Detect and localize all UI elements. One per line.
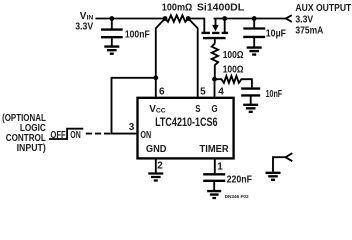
node gate/G junction [212,77,217,82]
svg-text:OFF: OFF [50,130,65,141]
connector GND probe ground [266,173,281,180]
svg-text:1: 1 [217,161,223,172]
svg-text:375mA: 375mA [295,25,323,36]
svg-text:INPUT): INPUT) [17,143,46,154]
capacitor C3 10nF [241,89,260,104]
svg-text:100mΩ: 100mΩ [162,3,193,14]
svg-text:100nF: 100nF [125,29,150,40]
transistor Q1 source stub [224,19,226,33]
wire source to AUX output [214,18,286,20]
capacitor C2 10uF [243,19,265,47]
wire ON feed [112,78,156,134]
capacitor C1 100nF [101,19,123,46]
resistor R2 100 horizontal [215,76,252,88]
svg-text:100Ω: 100Ω [223,64,244,75]
node C2 junction [252,16,257,21]
transistor Q1 gate lead [214,39,216,43]
node VIN/C1 junction [109,16,114,21]
AUX connector arrowhead [286,15,292,22]
transistor Q1 body arrow [212,19,219,32]
svg-text:ON: ON [140,130,151,141]
svg-text:TIMER: TIMER [200,144,230,155]
connector GND probe arrowhead [286,153,293,161]
svg-text:10µF: 10µF [266,28,286,39]
svg-text:2: 2 [157,161,163,172]
transistor Q1 channel segments [202,32,229,34]
svg-text:LTC4210-1CS6: LTC4210-1CS6 [155,115,218,129]
svg-text:4: 4 [218,87,224,98]
wire pin 1 to C4 [214,159,216,173]
svg-text:3: 3 [129,122,135,133]
node RS left [163,16,168,21]
node source/body [222,16,227,21]
svg-text:3.3V: 3.3V [295,14,313,25]
node VCC/ON junction [153,75,158,80]
svg-text:220nF: 220nF [227,174,252,185]
IC U1 LTC4210-1CS6 box [138,98,234,159]
svg-text:Si1400DL: Si1400DL [197,3,244,14]
wire RS right to drain [188,19,204,33]
resistor RS 100mOhm [165,15,188,21]
wire RS right to pin 5 [188,19,198,97]
svg-text:10nF: 10nF [266,89,283,100]
node RS right [186,16,191,21]
svg-text:GND: GND [146,144,167,155]
svg-text:ON: ON [70,130,80,141]
ground pin 2 [148,174,163,181]
connector GND probe wire [273,157,286,172]
ground under C2 [247,48,262,55]
wire pin 2 to ground [155,159,157,172]
svg-text:VCC: VCC [149,104,166,115]
resistor R1 100 gate vertical [212,44,218,80]
wire gate node to pin 4 [214,79,216,96]
wire VIN to sense resistor [95,18,165,20]
capacitor C4 220nF [203,174,225,190]
svg-text:5: 5 [200,87,206,98]
wire RS left to pin 6 [156,19,165,97]
wire dashed logic input [86,133,112,135]
logic step symbol [49,129,83,139]
ground under C1 [104,47,119,54]
svg-text:3.3V: 3.3V [75,21,93,32]
svg-text:DN346 F02: DN346 F02 [225,194,249,199]
ground under C4 [207,191,221,198]
svg-text:6: 6 [159,87,165,98]
svg-text:100Ω: 100Ω [223,50,244,61]
svg-text:AUX OUTPUT: AUX OUTPUT [295,3,351,14]
ground under C3 [243,105,258,112]
svg-text:S: S [195,104,200,115]
transistor Q1 gate bar [203,37,226,39]
svg-text:G: G [212,104,218,115]
